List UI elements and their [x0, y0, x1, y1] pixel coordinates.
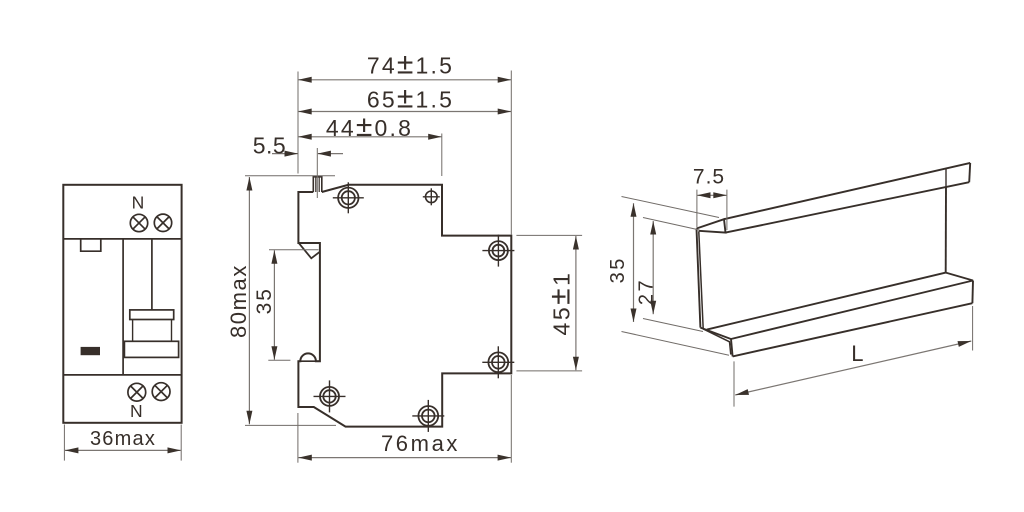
extension line right (shared by 74/65): [510, 71, 512, 236]
dim 45±1 bottom extension line: [516, 370, 582, 372]
front view: top divider line: [63, 238, 181, 240]
dim 36max dimension line: [65, 449, 181, 451]
din rail: flange front-bottom long edge: [733, 303, 973, 356]
dim 80max dimension line: [248, 177, 250, 424]
front view: terminal screw top-right: [154, 214, 171, 231]
svg-text:5.5: 5.5: [253, 133, 286, 159]
din rail: far end flange top edge: [946, 273, 973, 281]
dim 35 oblique extension top: [622, 197, 720, 218]
front view: toggle handle: [124, 341, 178, 357]
side profile: DIN clip tab: [313, 177, 322, 192]
dim 7.5 dimension line: [697, 194, 727, 196]
din rail: far end lip right edge: [969, 163, 970, 182]
svg-text:7.5: 7.5: [693, 166, 725, 189]
dim 27 dimension line: [652, 221, 654, 314]
din rail: web near front edge (double line): [697, 229, 701, 328]
din rail: far end flange right edge: [971, 281, 974, 304]
dim L dimension line: [735, 341, 971, 395]
extension line 44 right: [441, 134, 443, 177]
din rail: lip top long edge: [724, 163, 970, 219]
svg-text:N: N: [132, 193, 145, 213]
front view: terminal screw bottom-left: [128, 383, 146, 401]
rivet screw right-upper: [489, 241, 508, 260]
side profile: rail slot step chord under bump: [298, 360, 320, 362]
din rail: far end web edge: [945, 187, 947, 273]
rivet screw top-left: [338, 188, 358, 208]
side profile: body outline: [298, 185, 511, 427]
svg-text:74±1.5: 74±1.5: [367, 48, 454, 81]
dim 7.5 right extension line: [726, 190, 728, 230]
dim 35 dimension line (rail): [633, 203, 635, 322]
front view: black indicator window: [81, 347, 100, 355]
dim 76max right extension line: [510, 375, 512, 463]
dim 27 oblique extension top: [643, 218, 700, 231]
svg-text:L: L: [851, 341, 863, 366]
dim 27 oblique extension bottom: [643, 319, 703, 332]
din rail: flange back-top long edge: [707, 273, 946, 330]
svg-text:45±1: 45±1: [543, 271, 576, 336]
din rail: bottom flange near end step: [700, 328, 732, 357]
front view: toggle body left side: [132, 320, 134, 342]
rivet screw top-middle small: [426, 191, 438, 203]
dim 36max extension line right: [180, 425, 182, 461]
svg-text:44±0.8: 44±0.8: [326, 110, 413, 143]
dim 35 oblique extension bottom: [622, 332, 730, 356]
svg-text:35: 35: [253, 287, 276, 314]
din rail: lip bottom long edge: [726, 182, 970, 232]
extension line left (shared by 74/65/44): [297, 72, 299, 174]
svg-text:35: 35: [607, 256, 629, 283]
dim 7.5 left extension line: [696, 190, 698, 227]
din rail: near end lip (top-left beak): [697, 219, 726, 232]
rivet screw bottom-left: [320, 387, 339, 406]
front view: breaker body outline: [63, 185, 181, 423]
rivet screw right-lower: [488, 352, 508, 372]
svg-text:36max: 36max: [90, 428, 156, 450]
dim 80max top extension line: [245, 175, 335, 177]
front view: terminal screw bottom-right: [152, 383, 170, 401]
front view: bottom divider line: [63, 374, 181, 376]
rivet screw bottom-middle: [418, 406, 438, 426]
dim 35 bottom extension line: [268, 359, 290, 361]
front view: center vertical divider: [122, 239, 124, 375]
dim L right extension line: [972, 306, 974, 351]
dim 45±1 dimension line: [575, 236, 577, 370]
dim 35 dimension line: [273, 250, 275, 360]
dim L left extension line: [733, 361, 735, 406]
svg-text:27: 27: [636, 278, 658, 305]
dim 74±1.5 dimension line: [298, 79, 511, 81]
dim 44±0.8 dimension line: [298, 136, 442, 138]
dim 65±1.5 dimension line: [298, 111, 511, 113]
svg-text:76max: 76max: [381, 431, 460, 456]
dim 36max extension line left: [63, 425, 65, 461]
dim 76max dimension line: [298, 457, 511, 459]
extension line 5.5 right: [316, 148, 318, 198]
dim 35 top extension line: [269, 249, 319, 251]
front view: small notch rectangle: [81, 239, 101, 251]
dim 76max left extension line: [297, 413, 299, 463]
side profile: V notch in rail slot: [299, 243, 320, 258]
dim 45±1 top extension line: [516, 234, 582, 236]
dim 5.5 arrows and leaders: [272, 153, 298, 155]
front view: toggle actuator rod: [151, 239, 153, 310]
front view: toggle top bar: [130, 310, 174, 320]
svg-text:80max: 80max: [226, 264, 251, 338]
din rail: flange front-top long edge: [731, 281, 973, 340]
svg-text:65±1.5: 65±1.5: [367, 82, 454, 115]
dim 80max bottom extension line: [245, 424, 336, 426]
din rail: far end lip left edge: [945, 168, 947, 188]
svg-text:N: N: [130, 401, 143, 421]
front view: toggle body right side: [171, 320, 173, 342]
front view: terminal screw top-left: [130, 214, 147, 231]
